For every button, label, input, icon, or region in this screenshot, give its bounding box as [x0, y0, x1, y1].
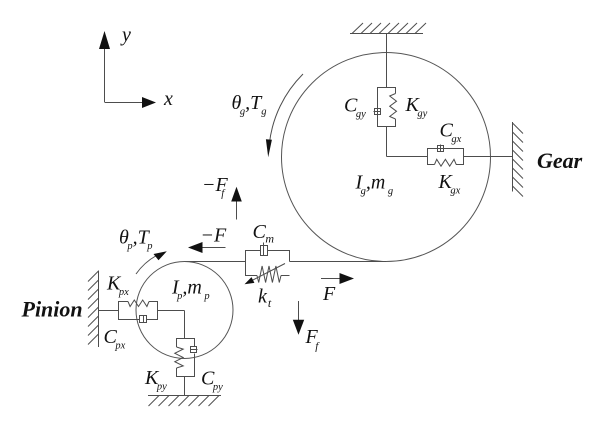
pinion ground (hatched): [148, 396, 221, 407]
spring Kpy (zigzag, left side of box): [175, 339, 195, 377]
damper Cpy (square on right side of box): [191, 347, 198, 353]
wire: pinion center down to Kpy box: [184, 311, 186, 339]
damper Cgy (square on left side of box): [374, 109, 381, 115]
force arrow F (on gear, pointing right): [321, 273, 354, 284]
axes: y-axis arrow: [99, 31, 110, 102]
svg-text:y: y: [120, 24, 131, 46]
pinion body circle (Ip, mp): [136, 262, 233, 359]
wire: Kgx box to right wall: [464, 156, 513, 158]
wire: mesh line (pinion tangent to Cm box): [185, 261, 246, 263]
gear rotation arrow (theta_g, T_g): [266, 74, 303, 157]
wire: wall to Kpx box: [99, 310, 119, 312]
svg-text:Gear: Gear: [537, 148, 583, 173]
gear top fixed support: [350, 23, 426, 34]
damper Cgx (square on top of box): [438, 145, 444, 152]
pinion rotation arrow (theta_p, T_p): [136, 251, 167, 274]
axes: x-axis arrow: [105, 97, 157, 108]
gear right fixed wall: [513, 122, 524, 197]
wire: junction to Cgx/Kgx box: [387, 156, 428, 158]
wire: Kgy box to gear center junction: [386, 127, 388, 157]
svg-text:F: F: [322, 283, 336, 305]
wire: mesh line (Cm box to gear tangent): [290, 261, 387, 263]
gear body circle (Ig, mg): [282, 53, 491, 262]
wire: support to Cgy/Kgy box: [386, 34, 388, 88]
spring Kpx (zigzag, top of box): [119, 300, 158, 320]
mesh damper Cm (box with dashpot on top): [246, 243, 290, 276]
pinion left fixed wall: [88, 271, 99, 348]
svg-text:−Ff: −Ff: [202, 174, 228, 200]
damper Cpx (square on bottom of box): [140, 315, 147, 323]
svg-text:θp,Tp: θp,Tp: [119, 226, 152, 252]
force arrow -F (on pinion, pointing left): [188, 242, 226, 253]
svg-text:Pinion: Pinion: [21, 296, 83, 321]
spring Kgx (zigzag, bottom of box): [428, 149, 464, 167]
wire: Kpx box to pinion center: [158, 310, 185, 312]
svg-text:−F: −F: [201, 225, 227, 247]
wire: Kpy box to ground: [184, 377, 186, 396]
spring Kgy (zigzag, right side of box): [378, 88, 397, 127]
mesh spring kt (time-varying, zigzag with arrow): [245, 264, 286, 285]
force arrow Ff (friction, pointing down): [293, 301, 304, 335]
svg-text:x: x: [163, 88, 173, 110]
force arrow -Ff (friction, pointing up): [231, 187, 242, 220]
